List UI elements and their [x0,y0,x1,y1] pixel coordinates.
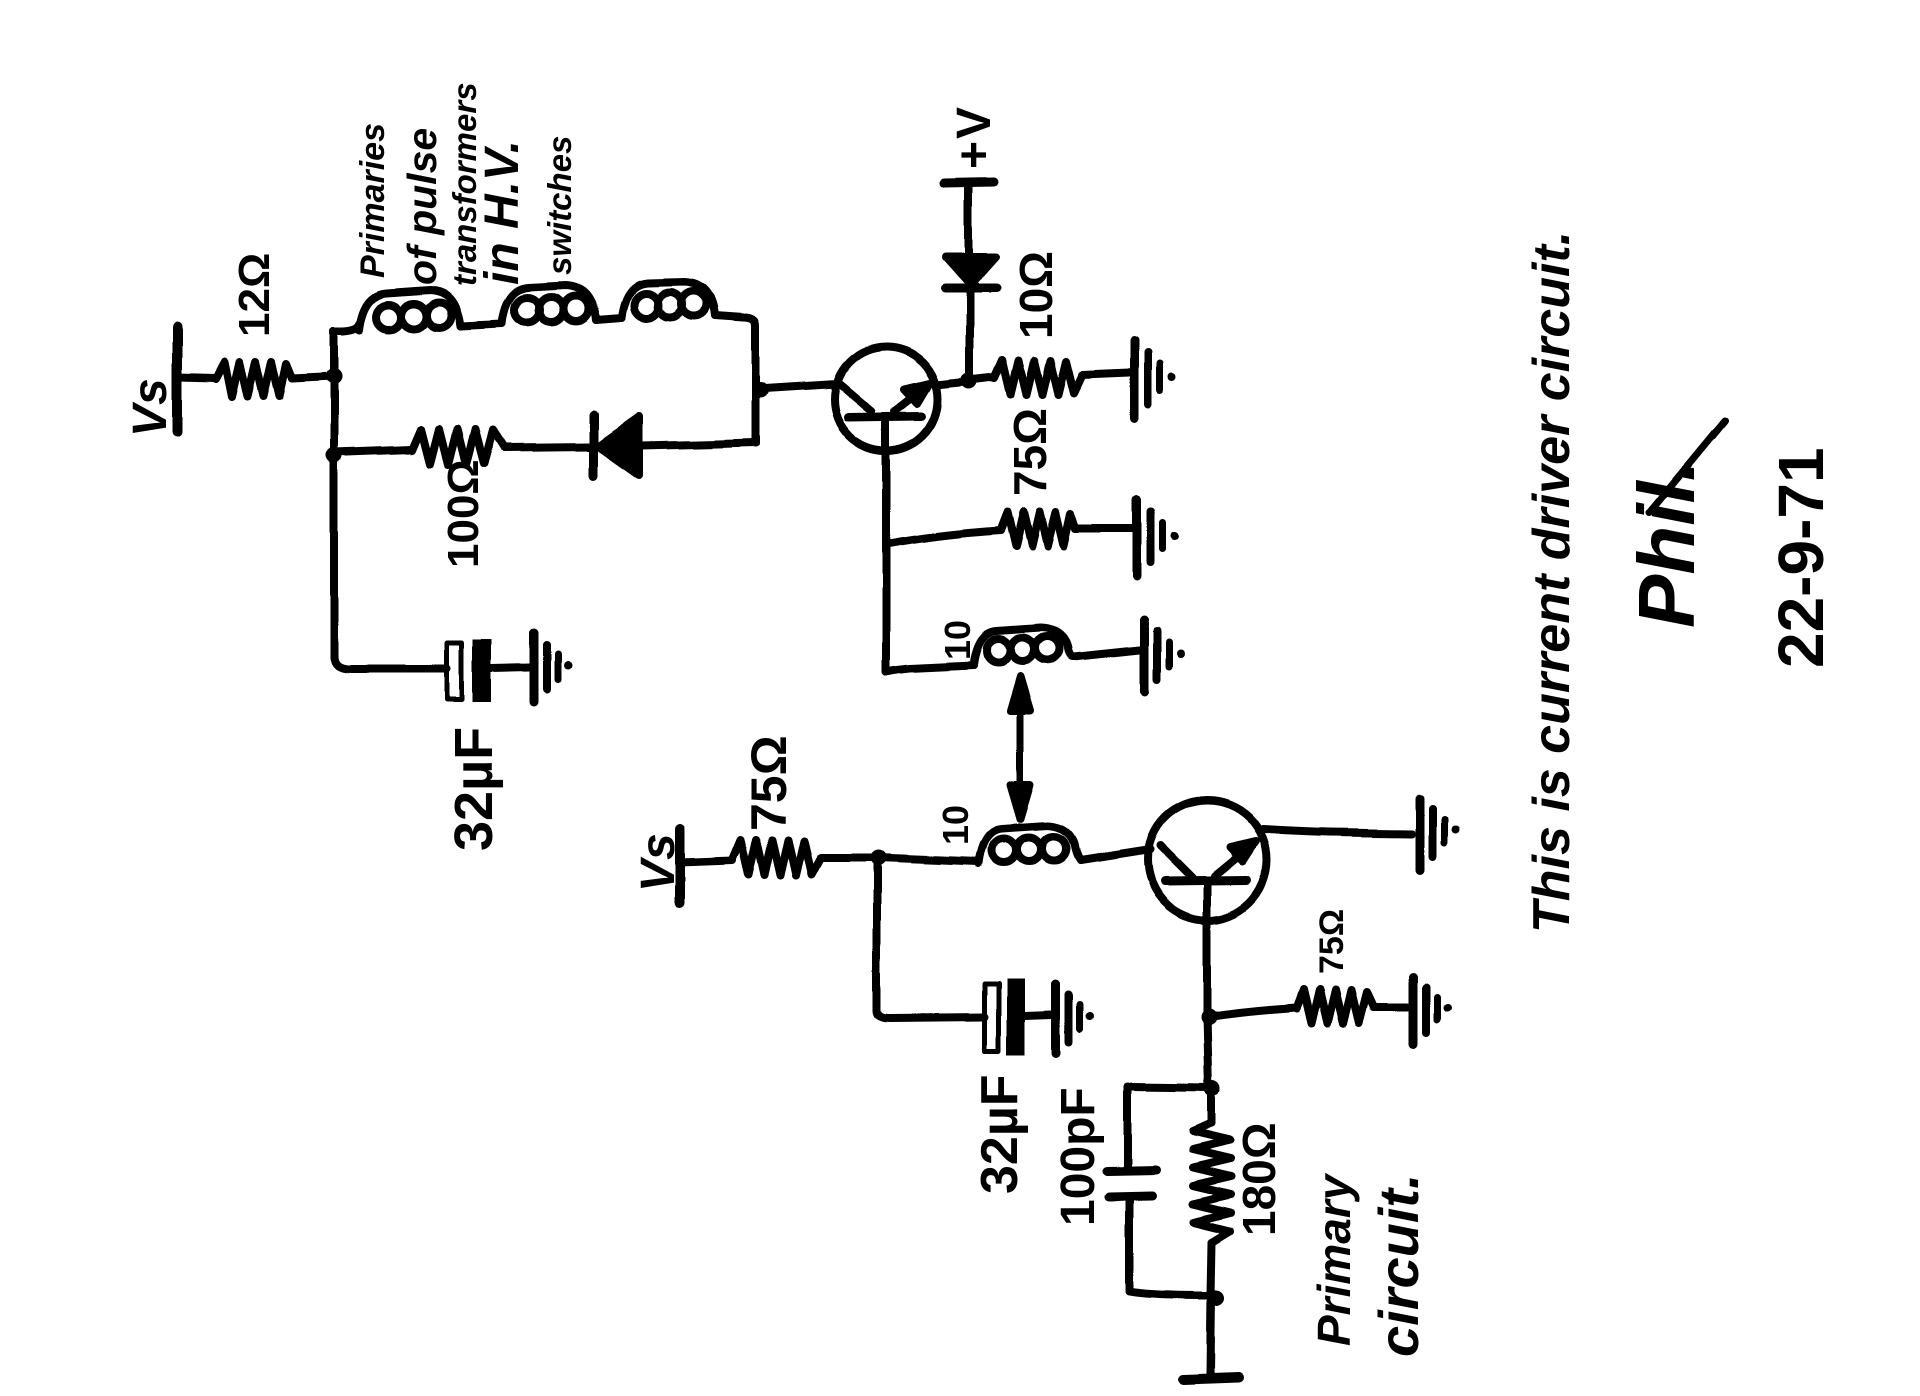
svg-text:32µF: 32µF [971,1074,1029,1194]
svg-text:75Ω: 75Ω [1004,408,1056,496]
ground [1145,620,1185,691]
svg-text:Primary: Primary [1308,1172,1360,1346]
inductor L3 10 [979,826,1080,864]
svg-text:22-9-71: 22-9-71 [1765,447,1837,668]
ground [534,633,572,702]
svg-text:10: 10 [937,620,978,660]
wire into cap [334,656,447,669]
wire [641,443,756,446]
ground [1137,500,1179,577]
wire collector to ground [1263,829,1412,833]
wire [292,377,334,379]
wire [504,447,590,448]
svg-text:Vs: Vs [124,378,177,437]
wire node to coil [878,858,979,862]
wire [680,861,732,863]
svg-text:+V: +V [948,105,1001,169]
node H junction 100pF bottom [1208,1290,1224,1306]
ground [1134,341,1176,418]
resistor R4 75ohm [1001,512,1076,546]
wire [596,318,622,320]
capacitor C3 100pF branch [1131,1087,1213,1088]
transistor Q2 [1147,800,1267,920]
wire to transistor base [758,384,836,389]
signature slash [1649,421,1725,513]
resistor R5 75ohm [732,840,821,876]
resistor R2 100ohm [412,429,504,465]
node E junction after lower 75 ohm [870,850,886,866]
wire [461,324,502,326]
svg-text:10Ω: 10Ω [1010,251,1062,339]
inductor L1 coil group C [622,282,716,318]
node B junction 100 ohm branch [326,447,342,463]
wire to 75ohm [1209,1008,1296,1017]
wire node down [877,858,985,1018]
capacitor C1 32uF (upper) [447,643,462,700]
diode D1 [589,415,598,476]
diode D2 [946,257,996,285]
svg-text:32µF: 32µF [444,727,504,851]
svg-text:of pulse: of pulse [399,128,445,285]
wire [1076,525,1132,533]
wire [821,854,874,862]
svg-text:Phil.: Phil. [1622,459,1711,628]
resistor R7 180ohm [1208,1089,1216,1124]
wire bottom branch lead [334,449,412,452]
wire vertical left rail [330,331,338,658]
wire [1082,373,1129,375]
node C junction box output [753,382,769,398]
node Vs terminal (upper) [172,327,182,432]
wire emitter node [1207,1016,1209,1089]
ground [1414,977,1452,1044]
svg-text:This is current driver circuit: This is current driver circuit. [1523,231,1581,933]
svg-text:Vs: Vs [632,833,685,892]
inductor L2 10 [973,628,1074,665]
node A junction after 12 ohm [326,369,342,385]
capacitor C2 32uF (lower) [985,984,999,1051]
node F emitter junction lower [1201,1009,1217,1025]
transistor Q1 [834,347,938,451]
node bottom terminal [1183,1378,1239,1380]
svg-text:75Ω: 75Ω [741,735,797,831]
ground [1420,798,1460,869]
svg-text:10: 10 [935,805,976,845]
wire emitter down [882,449,890,672]
svg-text:100Ω: 100Ω [439,459,488,568]
coupling arrow [1011,677,1031,819]
node +V terminal [945,182,994,183]
svg-text:circuit.: circuit. [1367,1173,1430,1357]
wire to coil [886,665,973,672]
wire to right corner [716,316,756,444]
svg-text:75Ω: 75Ω [1313,909,1351,974]
svg-text:180Ω: 180Ω [1233,1122,1285,1236]
wire collector to node [936,382,965,385]
resistor R3 10ohm [994,360,1082,394]
svg-text:in H.V.: in H.V. [476,140,529,285]
node G junction 100pF top [1205,1081,1221,1097]
wire coil to transistor [1080,850,1150,861]
wire to bottom terminal [1210,1296,1211,1374]
svg-text:Primaries: Primaries [354,123,392,278]
node Vs terminal (lower) [675,829,685,903]
wire to 75ohm [886,530,1001,544]
svg-text:12Ω: 12Ω [230,253,279,337]
ground [1056,984,1094,1053]
inductor L1 coil group B [502,286,596,324]
svg-text:switches: switches [541,136,578,275]
wire [1374,1003,1408,1011]
inductor L1 coil group A [360,290,461,330]
svg-text:100pF: 100pF [1052,1087,1105,1226]
wire [969,377,994,380]
resistor R6 75ohm [1296,990,1374,1024]
wire [177,377,215,378]
node D collector junction [961,373,977,389]
wire [1074,650,1140,657]
wire top branch entry [334,324,360,331]
resistor R1 12ohm [215,362,292,397]
